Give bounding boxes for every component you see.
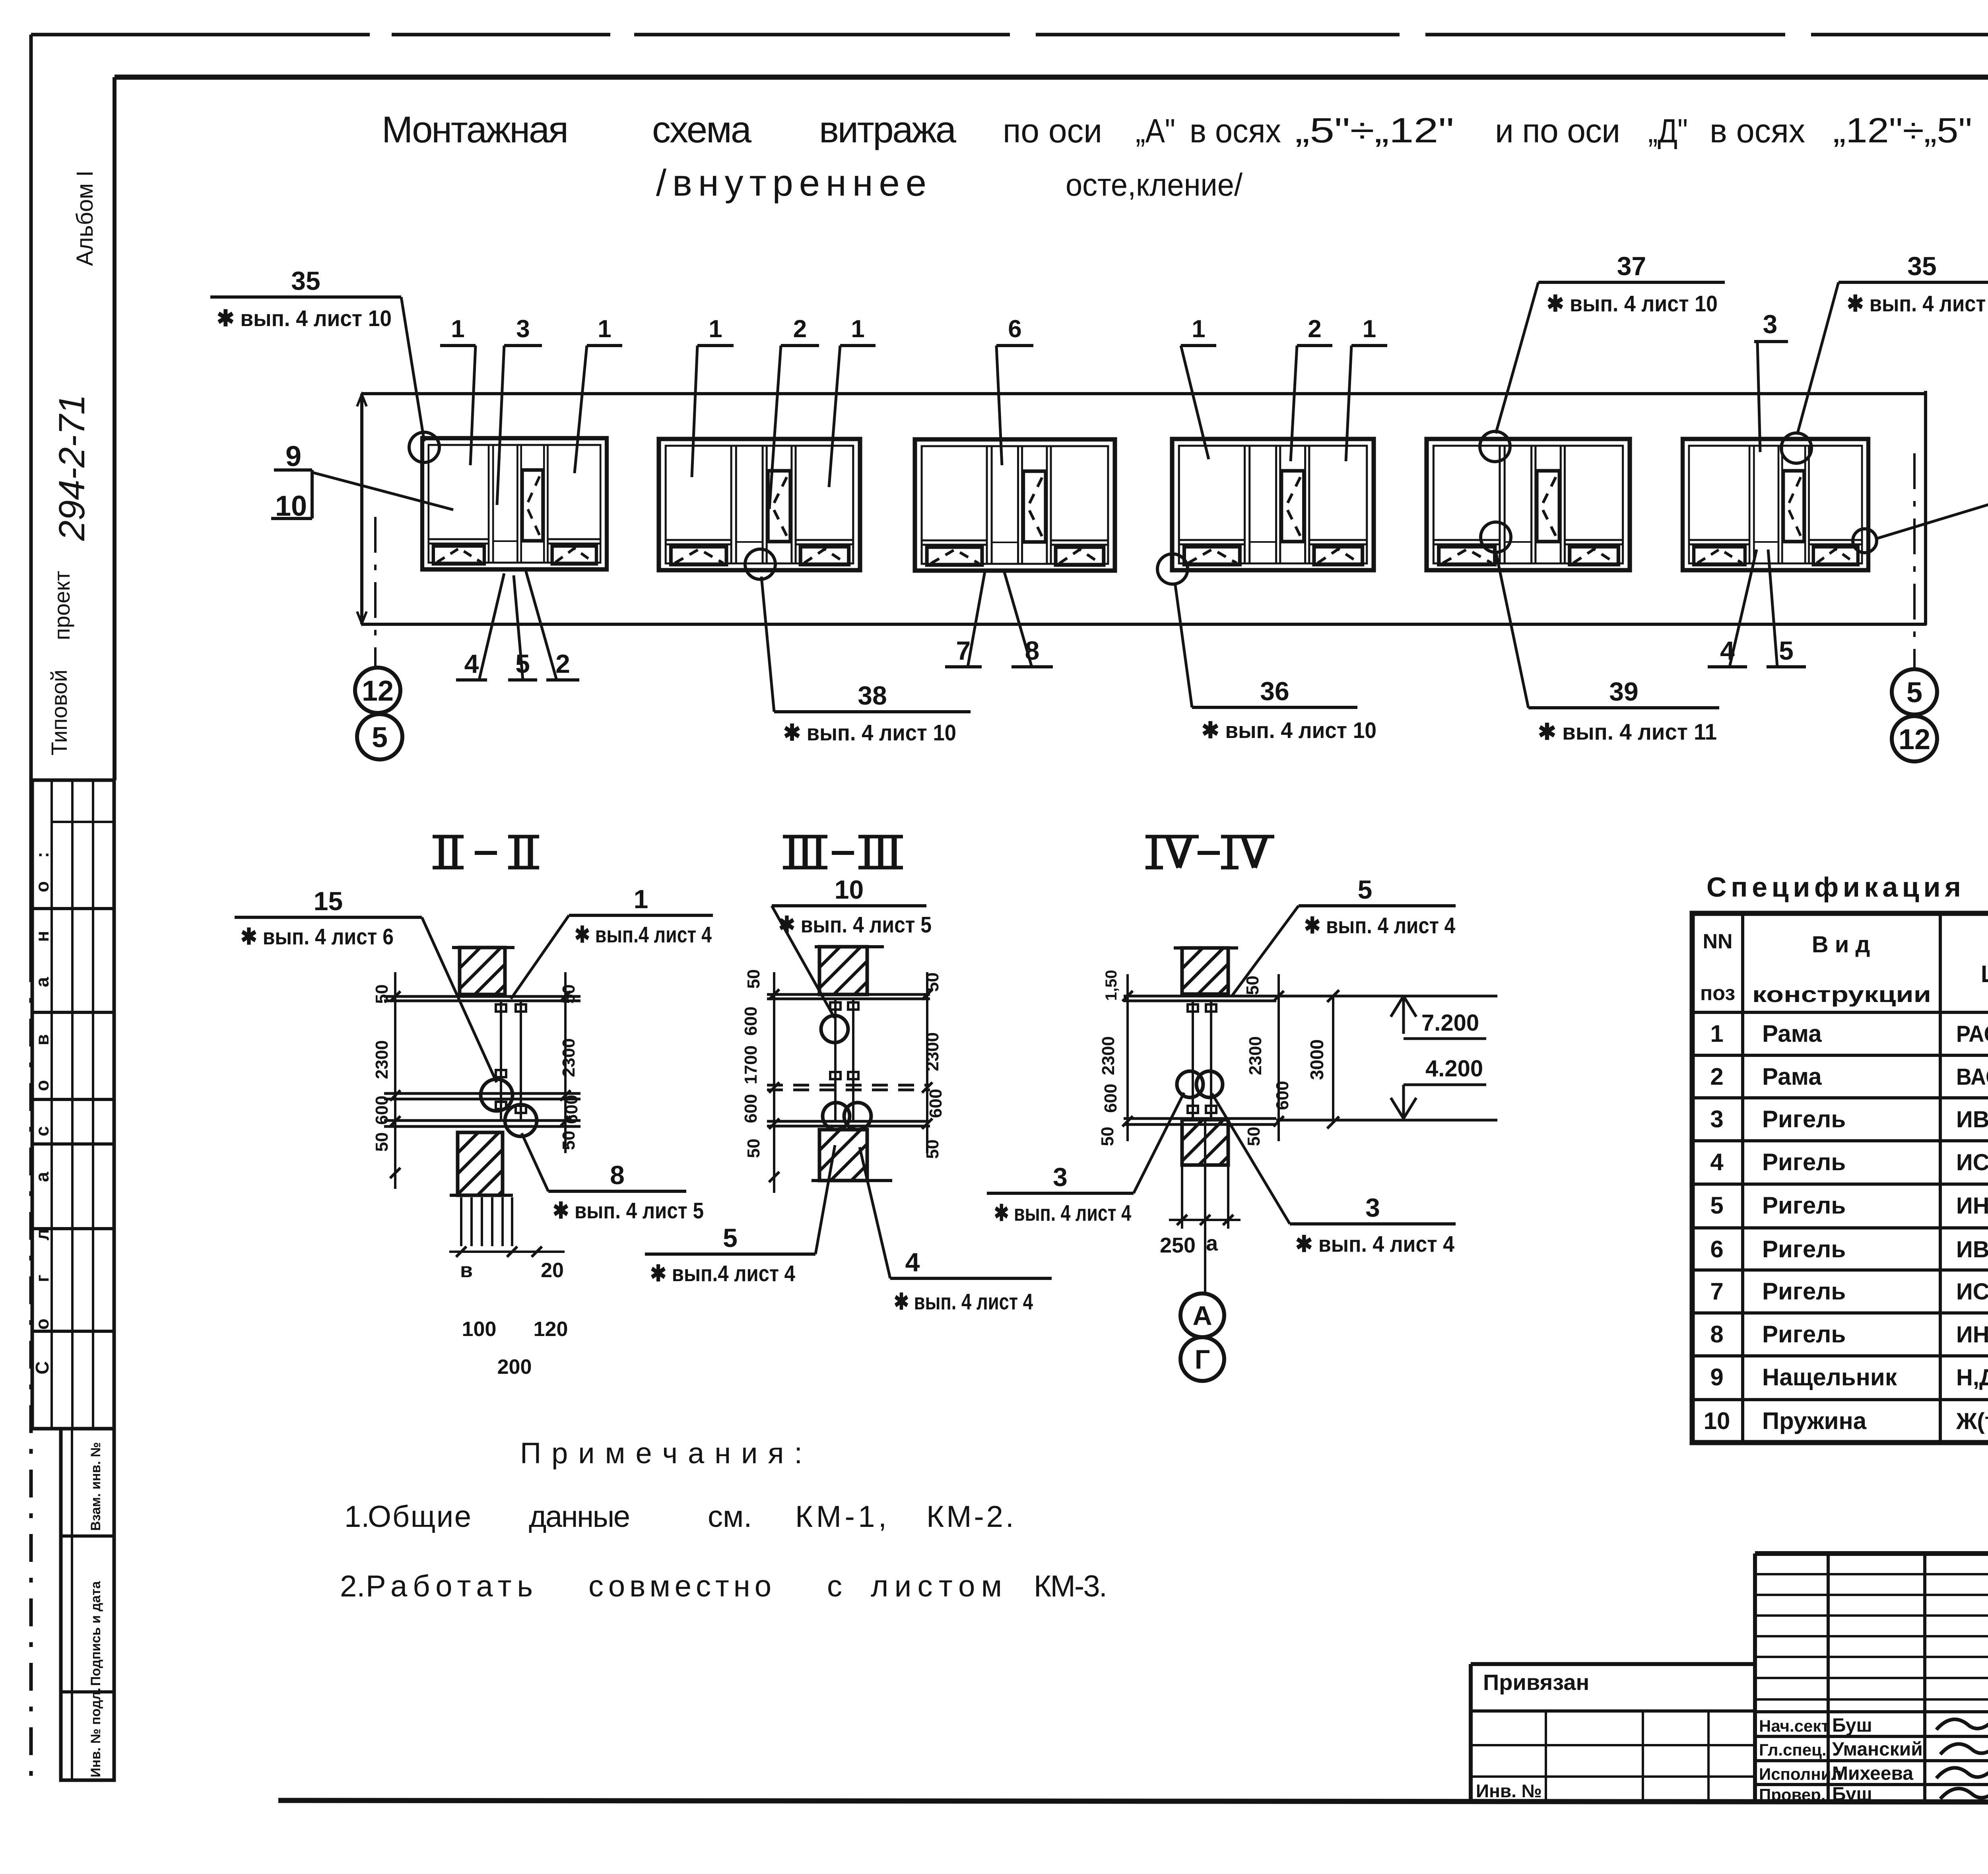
svg-text:2: 2 <box>1308 315 1321 343</box>
svg-text:„12"÷„5": „12"÷„5" <box>1833 111 1972 150</box>
svg-text:200: 200 <box>497 1355 532 1379</box>
svg-text:2: 2 <box>555 649 570 678</box>
svg-text:1.: 1. <box>344 1500 369 1534</box>
svg-text:проект: проект <box>49 571 74 640</box>
svg-text:✱ вып. 4 лист 4: ✱ вып. 4 лист 4 <box>894 1289 1033 1315</box>
svg-text:35: 35 <box>291 266 320 295</box>
svg-text:5: 5 <box>1358 875 1373 904</box>
svg-text:н: н <box>32 931 52 942</box>
svg-text:и по оси: и по оси <box>1495 112 1620 150</box>
svg-text:7.200: 7.200 <box>1421 1010 1479 1036</box>
svg-text:Монтажная: Монтажная <box>382 109 569 150</box>
svg-text:с: с <box>32 1126 52 1136</box>
svg-text:4: 4 <box>464 649 479 678</box>
svg-text:Ш и ф р: Ш и ф р <box>1981 961 1988 987</box>
svg-text:2300: 2300 <box>559 1038 579 1077</box>
svg-text:50: 50 <box>923 1140 942 1159</box>
svg-text:4: 4 <box>1710 1149 1724 1175</box>
svg-text:✱ вып. 4 лист 10: ✱ вып. 4 лист 10 <box>783 720 956 746</box>
svg-text:7: 7 <box>1710 1278 1723 1305</box>
svg-text:1: 1 <box>598 315 611 343</box>
svg-text:Ригель: Ригель <box>1762 1149 1846 1175</box>
svg-text:5: 5 <box>1710 1192 1723 1219</box>
svg-text:Ригель: Ригель <box>1762 1106 1846 1132</box>
svg-text:с: с <box>827 1569 842 1603</box>
svg-text:8: 8 <box>610 1160 625 1190</box>
svg-text:ИСЕ(т)-09,6: ИСЕ(т)-09,6 <box>1956 1279 1988 1305</box>
svg-text:2.: 2. <box>340 1569 365 1603</box>
svg-text:ИНЕ(т)-09,6: ИНЕ(т)-09,6 <box>1956 1322 1988 1348</box>
svg-text:а: а <box>32 977 52 987</box>
svg-text:г: г <box>32 1274 52 1282</box>
svg-text:4: 4 <box>905 1247 920 1277</box>
svg-text:о: о <box>32 1319 52 1330</box>
svg-text:1: 1 <box>851 315 864 343</box>
svg-text:Исполнил: Исполнил <box>1759 1765 1842 1783</box>
svg-text:Н,Д(т)-30: Н,Д(т)-30 <box>1956 1365 1988 1390</box>
svg-text:600: 600 <box>372 1095 392 1124</box>
svg-text:А: А <box>1192 1301 1212 1331</box>
svg-text:1: 1 <box>1192 315 1205 343</box>
svg-text:совместно: совместно <box>588 1569 771 1603</box>
svg-text:1: 1 <box>1363 315 1376 343</box>
svg-text:5: 5 <box>372 722 388 753</box>
svg-text:600: 600 <box>1273 1081 1292 1110</box>
svg-text:1: 1 <box>709 315 722 343</box>
svg-text:50: 50 <box>923 973 942 992</box>
svg-text:35: 35 <box>1907 251 1936 281</box>
svg-text:Взам. инв. №: Взам. инв. № <box>88 1442 103 1531</box>
svg-text:6: 6 <box>1710 1236 1723 1262</box>
svg-text:a: a <box>1206 1231 1218 1255</box>
svg-text:Михеева: Михеева <box>1832 1763 1913 1784</box>
svg-text:✱ вып. 4 лист 10: ✱ вып. 4 лист 10 <box>1547 291 1718 317</box>
svg-text:Гл.спец.: Гл.спец. <box>1759 1740 1827 1759</box>
svg-text:Нач.сект: Нач.сект <box>1759 1717 1829 1735</box>
svg-text:120: 120 <box>534 1318 568 1341</box>
svg-text:2300: 2300 <box>1246 1036 1265 1075</box>
svg-text:250: 250 <box>1160 1233 1196 1257</box>
svg-text:а: а <box>32 1172 52 1182</box>
svg-text:9: 9 <box>1710 1364 1723 1390</box>
svg-text:Г: Г <box>1195 1344 1210 1375</box>
svg-text:600: 600 <box>741 1006 761 1035</box>
svg-text:2: 2 <box>793 315 807 343</box>
svg-text:Ригель: Ригель <box>1762 1278 1846 1305</box>
svg-text:КМ-3.: КМ-3. <box>1034 1569 1107 1603</box>
svg-text:в осях: в осях <box>1190 112 1281 150</box>
svg-text:294-2-71: 294-2-71 <box>52 394 92 541</box>
svg-text:см.: см. <box>708 1500 752 1534</box>
svg-text:10: 10 <box>835 875 864 904</box>
svg-text:3000: 3000 <box>1307 1039 1327 1080</box>
svg-text:600: 600 <box>562 1095 581 1124</box>
svg-text:4.200: 4.200 <box>1425 1056 1483 1082</box>
svg-text:✱ вып. 4 лист 4: ✱ вып. 4 лист 4 <box>1304 913 1455 938</box>
svg-text:ИСЕ(т)-05,6: ИСЕ(т)-05,6 <box>1956 1150 1988 1175</box>
svg-text:2300: 2300 <box>1099 1036 1118 1075</box>
svg-text:конструкции: конструкции <box>1752 982 1931 1007</box>
svg-text:1,50: 1,50 <box>1103 970 1120 1001</box>
svg-text:л: л <box>32 1229 52 1240</box>
svg-text:✱ вып. 4 лист 4: ✱ вып. 4 лист 4 <box>994 1200 1131 1226</box>
svg-text:3: 3 <box>1763 309 1778 339</box>
svg-text:Рама: Рама <box>1762 1063 1822 1090</box>
svg-text:„Д": „Д" <box>1648 112 1688 150</box>
svg-text:✱ вып. 4 лист 10: ✱ вып. 4 лист 10 <box>217 306 392 331</box>
svg-text:5: 5 <box>1906 677 1922 709</box>
svg-text:„А": „А" <box>1136 112 1175 150</box>
svg-text:1700: 1700 <box>741 1045 761 1084</box>
svg-text:схема: схема <box>652 109 752 150</box>
svg-text:✱ вып. 4 лист 10: ✱ вып. 4 лист 10 <box>1202 718 1376 743</box>
svg-text:КМ-1,: КМ-1, <box>795 1500 887 1534</box>
svg-text:1: 1 <box>634 884 648 914</box>
svg-text:2300: 2300 <box>923 1032 942 1071</box>
svg-text:КМ-2.: КМ-2. <box>926 1500 1014 1534</box>
svg-text:12: 12 <box>362 675 394 707</box>
svg-text:витража: витража <box>819 109 957 150</box>
svg-text:✱ вып. 4 лист 4: ✱ вып. 4 лист 4 <box>1295 1231 1454 1257</box>
svg-text:37: 37 <box>1617 251 1646 281</box>
svg-text:В и д: В и д <box>1812 932 1870 957</box>
svg-text:Пружина: Пружина <box>1762 1408 1867 1434</box>
svg-text:20: 20 <box>541 1259 564 1282</box>
svg-text:10: 10 <box>1704 1408 1730 1434</box>
svg-text:8: 8 <box>1710 1321 1723 1348</box>
svg-text:50: 50 <box>1244 1127 1264 1146</box>
svg-text:✱ вып. 4 лист 11: ✱ вып. 4 лист 11 <box>1538 719 1717 745</box>
svg-text:Инв. №: Инв. № <box>1476 1781 1542 1801</box>
svg-text:ВАОЕ(т)30-06С: ВАОЕ(т)30-06С <box>1956 1064 1988 1090</box>
svg-text:РАОГ(т)30-15ф: РАОГ(т)30-15ф <box>1956 1021 1988 1047</box>
svg-text:50: 50 <box>744 1139 763 1158</box>
svg-text:Инв. № подл.: Инв. № подл. <box>88 1688 103 1777</box>
svg-text:Ригель: Ригель <box>1762 1192 1846 1219</box>
svg-text:2: 2 <box>1710 1063 1723 1090</box>
svg-text:Общие: Общие <box>368 1500 471 1534</box>
svg-text:3: 3 <box>1710 1106 1723 1132</box>
svg-text:50: 50 <box>744 969 763 989</box>
svg-text:✱ вып.4 лист 4: ✱ вып.4 лист 4 <box>575 922 712 948</box>
svg-text:100: 100 <box>462 1318 497 1341</box>
svg-text:Работать: Работать <box>366 1569 533 1603</box>
svg-text:ИВЕ(т)-05,6: ИВЕ(т)-05,6 <box>1956 1107 1988 1132</box>
svg-text:NN: NN <box>1703 930 1732 953</box>
svg-text:✱ вып. 4 лист 5: ✱ вып. 4 лист 5 <box>779 912 932 938</box>
svg-text:Буш: Буш <box>1832 1784 1872 1805</box>
svg-text:6: 6 <box>1008 315 1021 343</box>
svg-text:2300: 2300 <box>372 1040 392 1079</box>
svg-text:✱ вып. 4 лист 10: ✱ вып. 4 лист 10 <box>1847 291 1988 317</box>
svg-text:Привязан: Привязан <box>1483 1670 1589 1695</box>
svg-text:ИНЕ(т)-05,6: ИНЕ(т)-05,6 <box>1956 1193 1988 1219</box>
svg-text:50: 50 <box>372 985 392 1004</box>
svg-text:данные: данные <box>529 1500 630 1534</box>
svg-text:поз: поз <box>1700 982 1735 1005</box>
svg-text:3: 3 <box>516 315 530 343</box>
svg-text::: : <box>32 852 52 858</box>
svg-text:Нащельник: Нащельник <box>1762 1364 1897 1390</box>
svg-text:3: 3 <box>1365 1193 1380 1222</box>
svg-text:5: 5 <box>723 1223 738 1253</box>
svg-text:1: 1 <box>451 315 464 343</box>
svg-text:Ж(т)-01: Ж(т)-01 <box>1956 1408 1988 1434</box>
svg-text:5: 5 <box>1779 636 1794 665</box>
svg-text:С: С <box>32 1361 52 1374</box>
svg-text:Подпись и дата: Подпись и дата <box>88 1581 103 1686</box>
svg-text:о: о <box>32 881 52 892</box>
svg-text:36: 36 <box>1260 676 1289 706</box>
svg-text:о: о <box>32 1080 52 1091</box>
svg-text:Ригель: Ригель <box>1762 1321 1846 1348</box>
svg-text:ИВЕ(т)-09,6: ИВЕ(т)-09,6 <box>1956 1237 1988 1262</box>
svg-text:600: 600 <box>1101 1084 1120 1113</box>
svg-text:1: 1 <box>1710 1020 1723 1047</box>
svg-text:✱ вып.4 лист 4: ✱ вып.4 лист 4 <box>650 1261 795 1286</box>
svg-text:50: 50 <box>559 985 579 1004</box>
svg-text:Типовой: Типовой <box>47 670 72 755</box>
svg-text:15: 15 <box>314 886 343 916</box>
svg-text:в осях: в осях <box>1710 112 1805 150</box>
svg-text:50: 50 <box>372 1132 392 1152</box>
svg-text:в: в <box>32 1034 52 1045</box>
svg-text:600: 600 <box>926 1089 945 1118</box>
svg-text:50: 50 <box>559 1131 579 1150</box>
svg-text:Ригель: Ригель <box>1762 1236 1846 1262</box>
svg-text:✱ вып. 4 лист 5: ✱ вып. 4 лист 5 <box>553 1198 704 1223</box>
svg-text:3: 3 <box>1053 1162 1068 1192</box>
svg-text:38: 38 <box>858 681 887 710</box>
svg-text:Рама: Рама <box>1762 1020 1822 1047</box>
svg-text:600: 600 <box>741 1094 761 1123</box>
svg-text:„5"÷„12": „5"÷„12" <box>1295 111 1454 150</box>
svg-text:в: в <box>460 1259 473 1282</box>
svg-text:Уманский: Уманский <box>1832 1739 1923 1760</box>
svg-text:Провер.: Провер. <box>1759 1785 1825 1804</box>
svg-text:✱ вып. 4 лист 6: ✱ вып. 4 лист 6 <box>241 924 394 950</box>
svg-text:12: 12 <box>1899 724 1930 755</box>
svg-text:по оси: по оси <box>1003 112 1102 150</box>
svg-text:Альбом I: Альбом I <box>72 171 98 266</box>
svg-text:Буш: Буш <box>1832 1715 1872 1736</box>
svg-text:50: 50 <box>1243 976 1262 995</box>
svg-text:9: 9 <box>285 441 301 472</box>
svg-text:39: 39 <box>1609 677 1638 706</box>
svg-text:осте,кление/: осте,кление/ <box>1066 167 1243 202</box>
svg-text:50: 50 <box>1098 1127 1117 1146</box>
